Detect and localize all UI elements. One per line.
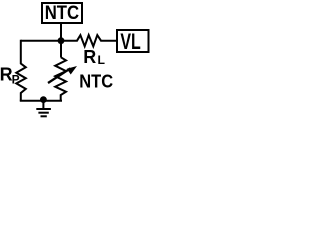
svg-text:P: P bbox=[12, 73, 20, 87]
svg-text:R: R bbox=[83, 47, 96, 67]
svg-text:NTC: NTC bbox=[79, 71, 113, 91]
svg-text:VL: VL bbox=[120, 29, 140, 54]
svg-text:L: L bbox=[98, 53, 106, 67]
svg-text:NTC: NTC bbox=[45, 2, 79, 24]
